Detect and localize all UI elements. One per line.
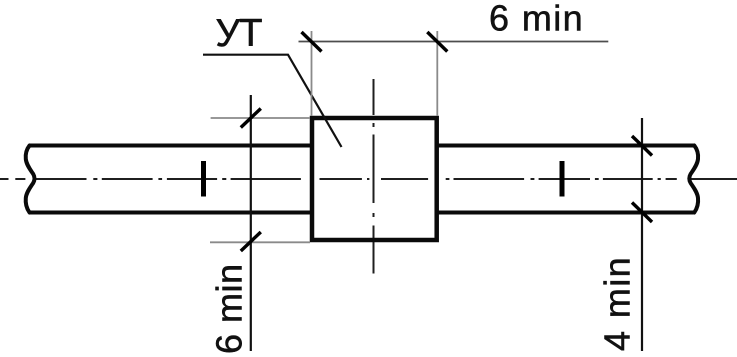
right dimension line: [641, 118, 643, 351]
shaft right break symbol: [689, 146, 698, 213]
left dimension extension line bottom: [210, 241, 310, 243]
svg-text:6 min: 6 min: [208, 263, 249, 354]
top dimension tick right: [427, 32, 447, 52]
right dimension tick top: [632, 136, 652, 156]
top dimension extension line right: [436, 31, 438, 116]
left dimension tick bottom: [241, 232, 261, 251]
svg-text:4 min: 4 min: [597, 256, 638, 351]
svg-text:УТ: УТ: [216, 12, 262, 55]
shaft right segment top edge: [437, 144, 695, 148]
svg-text:6 min: 6 min: [489, 0, 584, 39]
top dimension extension line left: [311, 31, 313, 116]
right dimension tick bottom: [632, 203, 652, 223]
shaft left segment bottom edge: [30, 211, 313, 215]
shaft left break symbol: [26, 146, 35, 213]
top dimension line: [299, 41, 609, 43]
centerline plus tick right: [560, 161, 565, 197]
horizontal centerline: [0, 178, 737, 180]
shaft right segment bottom edge: [437, 211, 694, 215]
left dimension extension line top: [211, 117, 310, 119]
weld block outline: [312, 118, 437, 240]
leader line of UT label: [203, 55, 342, 147]
vertical centerline (weld axis): [373, 79, 375, 274]
shaft left segment top edge: [29, 144, 312, 148]
centerline plus tick left: [201, 161, 206, 197]
top dimension tick left: [302, 32, 322, 52]
left dimension tick top: [241, 109, 261, 128]
left dimension line: [250, 95, 252, 351]
